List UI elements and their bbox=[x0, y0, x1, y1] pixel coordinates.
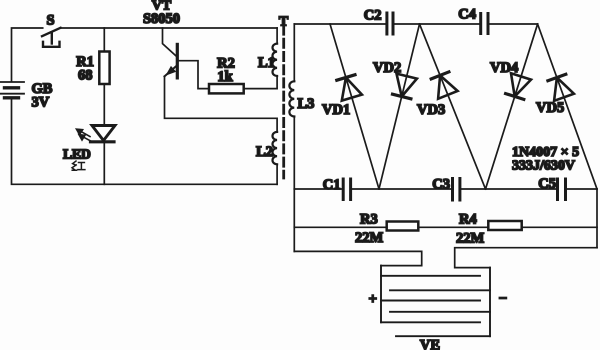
wire left rail top (battery + to switch) bbox=[12, 28, 43, 82]
svg-text:VE: VE bbox=[420, 338, 440, 350]
wire L3 bottom lead bbox=[293, 117, 295, 190]
wire left rail bottom (battery - to bottom rail) bbox=[12, 98, 278, 184]
diode VD3 cathode bar bbox=[431, 72, 449, 79]
diode VD1 cathode bar bbox=[337, 75, 355, 80]
wire top rail (switch to L1) bbox=[61, 27, 278, 29]
wire VD1 branch bbox=[330, 24, 379, 189]
wire base bbox=[179, 61, 209, 89]
diode VD4 triangle bbox=[511, 73, 531, 96]
capacitor C5 bbox=[558, 179, 566, 200]
label red (CJK drawn) bbox=[72, 161, 85, 170]
svg-text:C5: C5 bbox=[538, 176, 556, 192]
svg-text:−: − bbox=[499, 291, 508, 307]
inductor L2 bbox=[273, 132, 278, 164]
resistor R3 bbox=[387, 222, 419, 231]
LED emission arrows bbox=[76, 129, 92, 142]
electrode VE right plate bbox=[390, 268, 490, 337]
wire multiplier top rail seg1 bbox=[294, 23, 387, 25]
svg-text:VD4: VD4 bbox=[490, 60, 518, 76]
wire VD2 branch bbox=[379, 24, 420, 189]
svg-text:3V: 3V bbox=[32, 95, 50, 111]
transistor Q1 emitter bbox=[165, 66, 177, 76]
inductor L3 bbox=[289, 81, 294, 116]
svg-text:S8050: S8050 bbox=[143, 11, 180, 27]
wire electrode right hook bbox=[455, 248, 597, 268]
svg-text:1k: 1k bbox=[217, 69, 233, 85]
resistor R1 bbox=[99, 52, 109, 85]
wire L1 top lead bbox=[276, 28, 278, 44]
wire multiplier bottom rail seg4 bbox=[566, 188, 598, 190]
wire L2 bottom lead bbox=[276, 164, 278, 184]
wire VD5 branch bbox=[538, 24, 597, 189]
wire multiplier top rail seg2 bbox=[393, 23, 481, 25]
battery GB bbox=[0, 82, 24, 98]
svg-text:22M: 22M bbox=[456, 231, 485, 247]
wire output rail (R3 R4) bbox=[294, 226, 386, 228]
svg-text:VD2: VD2 bbox=[373, 60, 401, 76]
wire L3 top lead bbox=[293, 24, 295, 81]
wire VD4 branch bbox=[486, 24, 538, 189]
transformer core (dashed) bbox=[282, 26, 285, 178]
diode VD2 triangle bbox=[397, 74, 417, 97]
wire R1 top bbox=[103, 28, 105, 52]
capacitor C1 bbox=[343, 179, 350, 200]
wire multiplier bottom rail seg1 bbox=[294, 188, 343, 190]
svg-text:VD3: VD3 bbox=[417, 102, 445, 118]
inductor L1 bbox=[273, 44, 278, 76]
resistor R2 bbox=[209, 84, 244, 93]
capacitor C3 bbox=[453, 179, 460, 201]
diode VD1 triangle bbox=[342, 78, 362, 101]
wire VD3 branch bbox=[420, 24, 486, 189]
svg-text:333J/630V: 333J/630V bbox=[512, 159, 575, 174]
svg-text:C4: C4 bbox=[458, 7, 476, 23]
svg-text:VD1: VD1 bbox=[322, 102, 350, 118]
diode VD4 cathode bar bbox=[506, 94, 524, 100]
svg-text:LED: LED bbox=[63, 147, 91, 162]
transistor Q1 bar bbox=[176, 44, 179, 78]
svg-text:L3: L3 bbox=[298, 96, 315, 112]
capacitor C2 bbox=[387, 13, 393, 34]
diode VD5 cathode bar bbox=[548, 74, 566, 80]
svg-text:+: + bbox=[369, 292, 378, 308]
svg-text:R4: R4 bbox=[459, 212, 477, 228]
svg-text:C2: C2 bbox=[364, 8, 382, 24]
wire multiplier top rail seg3 bbox=[488, 23, 538, 25]
svg-text:VD5: VD5 bbox=[536, 100, 564, 116]
svg-text:T: T bbox=[279, 15, 289, 30]
svg-text:L1: L1 bbox=[258, 55, 275, 71]
svg-text:R3: R3 bbox=[360, 212, 378, 228]
svg-text:22M: 22M bbox=[355, 230, 384, 246]
diode VD3 triangle bbox=[438, 75, 458, 98]
wire rail to right edge bbox=[522, 226, 597, 228]
LED D (triangle + bar) bbox=[91, 126, 116, 142]
wire multiplier bottom rail seg3 bbox=[460, 188, 557, 190]
wire emitter to L2 top bbox=[165, 76, 278, 132]
switch S bbox=[42, 28, 61, 47]
diode VD2 cathode bar bbox=[393, 94, 411, 99]
wire electrode left hook bbox=[294, 251, 421, 265]
wire R1 to LED bbox=[103, 84, 105, 126]
wire R2 to L1 bottom bbox=[244, 76, 277, 89]
wire LED to bottom rail bbox=[103, 142, 105, 185]
svg-text:S: S bbox=[46, 13, 54, 29]
resistor R4 bbox=[488, 221, 521, 230]
svg-text:C3: C3 bbox=[432, 177, 450, 193]
capacitor C4 bbox=[481, 14, 488, 34]
wire multiplier bottom rail seg2 bbox=[351, 188, 453, 190]
diode VD5 triangle bbox=[554, 78, 574, 101]
wire multiplier left edge down bbox=[293, 189, 295, 251]
wire multiplier right edge down bbox=[596, 189, 598, 248]
svg-text:C1: C1 bbox=[323, 177, 341, 193]
svg-text:68: 68 bbox=[78, 68, 93, 84]
wire collector bbox=[163, 28, 177, 56]
wire rail R3-R4 bbox=[418, 226, 488, 228]
svg-text:L2: L2 bbox=[256, 144, 273, 160]
electrode VE left plate bbox=[381, 266, 480, 323]
